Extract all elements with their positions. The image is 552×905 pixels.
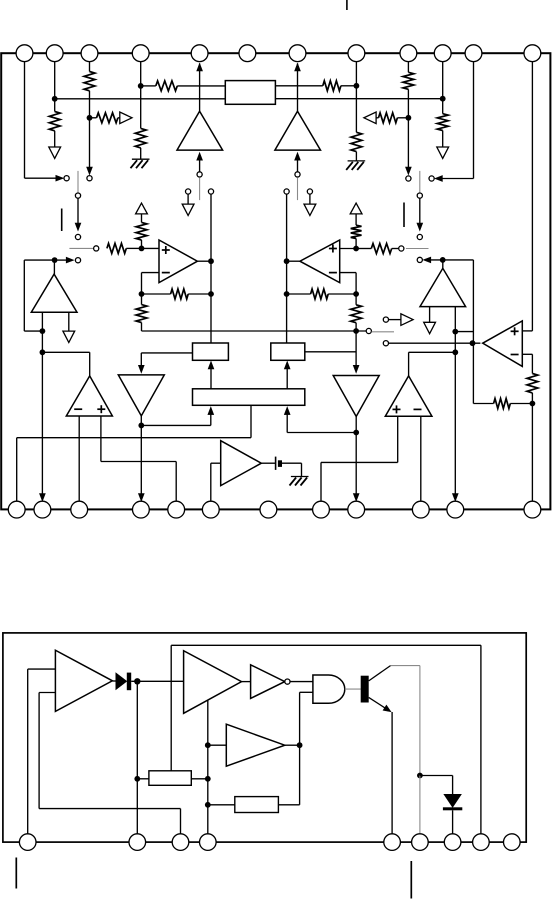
- wire B3 center down: [250, 405, 252, 437]
- wire N1 to AND gate G1 input a: [290, 681, 313, 683]
- stub to mute arrow R: [309, 194, 311, 204]
- wire U4 + leg across: [321, 461, 398, 463]
- wire down to U4 apex: [408, 352, 410, 376]
- arrowhead into pin B4: [138, 494, 144, 502]
- open arrow output left-pointing (monitor R): [364, 112, 376, 124]
- transistor Q1 emitter lead: [369, 697, 387, 709]
- junction node T: [40, 349, 46, 355]
- wire mixer to B2 arrow: [286, 365, 288, 389]
- resistor R18: [527, 374, 538, 393]
- wire U2 + input: [340, 248, 356, 250]
- transistor Q1 base bar: [361, 676, 369, 703]
- pin P4 (bottom block): [200, 834, 217, 851]
- wire collector down (gray): [419, 666, 421, 776]
- pin B1 (bottom row of top block): [8, 501, 25, 518]
- pin B11 (bottom row of top block): [447, 501, 464, 518]
- wire R1 to supply arrow: [54, 131, 56, 147]
- arrowhead into amp A2 input: [295, 153, 301, 161]
- pin T8 (top row): [348, 45, 365, 62]
- arrowhead into mixer B3 bottom left: [208, 407, 214, 415]
- block B2 (right attenuator): [271, 343, 305, 360]
- arrowhead into SW1 right contact: [87, 167, 93, 175]
- wire up to block B3 bottom right: [286, 411, 288, 433]
- U5 plus label: [511, 327, 519, 335]
- wire U1 - input horizontal: [142, 272, 160, 274]
- pin P9 (bottom block): [504, 834, 521, 851]
- wire U3 - leg to pin B3: [78, 416, 80, 501]
- transistor Q1 collector lead: [369, 666, 391, 681]
- resistor R15 (U2 feedback): [311, 289, 329, 299]
- wire down to CR2: [452, 776, 454, 795]
- inverter N1 (triangle): [251, 665, 285, 699]
- SW4 throw contact left: [284, 189, 289, 194]
- arrowhead into pin B9: [353, 494, 359, 502]
- resistor R3: [97, 113, 118, 123]
- power amp A2 (right, triangle up): [275, 111, 321, 150]
- junction node BG: [417, 773, 423, 779]
- U2 plus label: [329, 245, 337, 253]
- wire R6 to ground: [355, 152, 357, 161]
- wire R17 to rail2 node P: [355, 323, 357, 331]
- arrowhead into pin T5: [197, 63, 203, 71]
- wire U5 output to SW7 lower: [389, 342, 481, 344]
- SW3 throw contact right: [208, 189, 213, 194]
- wire U2 - input horizontal: [340, 272, 356, 274]
- wire node M to R16: [141, 294, 143, 305]
- wire pin T3 down: [89, 62, 91, 72]
- wire pin P1 up to D1 input: [27, 669, 29, 834]
- wire emitter to pin P5: [391, 712, 393, 834]
- resistor R10: [437, 114, 448, 131]
- page bottom tick mark 1: [15, 858, 17, 889]
- junction node K (U1 + input): [139, 246, 145, 252]
- pin T7 (top row): [289, 45, 306, 62]
- SW3 throw contact left: [186, 189, 191, 194]
- wire R13 to node L: [392, 248, 399, 250]
- resistor R8: [403, 72, 414, 89]
- capacitor C1 plate 1: [275, 457, 277, 470]
- wire R10 to supply arrow: [442, 131, 444, 148]
- pin T2 (top row): [46, 45, 63, 62]
- junction node Z: [353, 430, 359, 436]
- junction node P (rail2 / mixer feed): [353, 328, 359, 334]
- pin B6 (bottom row of top block): [202, 501, 219, 518]
- wire node W to U4 input: [409, 351, 456, 353]
- U4 plus label: [393, 405, 401, 413]
- pin T12 (top row): [524, 45, 541, 62]
- switch lever SW1 (gray): [77, 171, 79, 193]
- outer amp A3 (triangle up): [31, 274, 77, 312]
- diode CR2 anode (solid): [444, 794, 461, 807]
- wire A1 input from contact: [199, 156, 201, 172]
- block B3 (wide mixer block): [193, 389, 305, 406]
- wire pin T1 down: [24, 62, 26, 179]
- wire RB2 to corner: [278, 804, 299, 806]
- wire R16 to rail2: [141, 323, 143, 332]
- pin P1 (bottom block): [19, 834, 36, 851]
- SW4 throw contact right: [307, 189, 312, 194]
- junction node BC (D3 input): [205, 742, 211, 748]
- junction node R (A3 output): [52, 257, 58, 263]
- inverter T1 (triangle down): [118, 375, 164, 416]
- wire D1 to diode CR1: [112, 680, 116, 682]
- junction node H (feedback R12): [208, 291, 214, 297]
- wire tap on D2 output slope: [207, 701, 209, 746]
- wire R12 to node H: [188, 293, 211, 295]
- wire pin T10 down: [442, 62, 444, 114]
- op-amp U4 (triangle up): [385, 376, 432, 416]
- wire node Z to mixer arrow: [287, 432, 356, 434]
- pin P8 (bottom block): [473, 834, 490, 851]
- wire up to block B3 bottom: [210, 411, 212, 426]
- block B1 (left attenuator): [193, 343, 229, 360]
- junction node M: [139, 291, 145, 297]
- junction node BD: [297, 742, 303, 748]
- resistor R11: [107, 243, 126, 253]
- junction node E: [406, 115, 412, 121]
- junction node F (pin T10 / bus1): [440, 96, 446, 102]
- arrowhead into pin B2: [40, 494, 46, 502]
- junction node X: [530, 401, 536, 407]
- block X1 (center function block): [225, 81, 275, 105]
- power amp A1 (left, triangle up): [177, 111, 223, 150]
- arrowhead into pin B11: [452, 494, 458, 502]
- arrowhead into B1 bottom: [208, 361, 214, 369]
- arrowhead into SW5 lower contact: [66, 257, 74, 263]
- AND gate G1: [313, 675, 345, 703]
- wire RB1 to node BE: [191, 778, 208, 780]
- resistor R5: [156, 81, 178, 91]
- pin T6 (top row): [239, 45, 256, 62]
- pin B5 (bottom row of top block): [168, 501, 185, 518]
- wire node Y to pin B4: [140, 425, 142, 497]
- resistor R12a: [136, 222, 147, 240]
- wire pin T11 down: [473, 62, 475, 179]
- resistor RB1 (box style): [149, 771, 191, 786]
- wire R11 to node K: [126, 247, 141, 249]
- wire R8 to node E: [407, 89, 409, 118]
- pin T11 (top row): [465, 45, 482, 62]
- wire C1 to ground corner: [282, 462, 302, 464]
- SW7 throw upper: [383, 317, 388, 322]
- wire pin B6 to T3 input: [210, 463, 212, 501]
- supply up arrow symbol R: [350, 203, 362, 214]
- driver D3 (medium buffer): [226, 724, 284, 766]
- switch lever SW3 (gray): [199, 177, 201, 200]
- wire block B1 to T1: [141, 352, 192, 354]
- pin P2 (bottom block): [129, 834, 146, 851]
- wire A3 loop top: [24, 259, 54, 261]
- wire D3 output to node BD: [285, 744, 300, 746]
- resistor R19: [494, 399, 511, 409]
- ground symbol G3: [290, 477, 309, 486]
- wire SW7 upper to out arrow: [389, 319, 401, 321]
- wire A4 right leg: [454, 307, 456, 332]
- wire node BC down: [207, 745, 209, 779]
- switch lever SW5 (gray): [69, 247, 93, 249]
- wire feedback top corner down: [170, 645, 172, 771]
- SW7 common contact (rail2 end): [366, 328, 371, 333]
- wire supply to R12a: [141, 214, 143, 223]
- arrowhead into inverter T2: [353, 365, 359, 373]
- junction node Y: [138, 423, 144, 429]
- SW6 contact lower: [417, 257, 422, 262]
- outer amp A4 (triangle up): [420, 268, 466, 306]
- wire node BG to pin P6 (gray): [419, 776, 421, 835]
- arrowhead into SW2 contact: [435, 176, 443, 182]
- switch contact circle (A1 common): [197, 172, 202, 177]
- SW7 throw lower: [383, 341, 388, 346]
- wire pin T8 down: [355, 62, 357, 133]
- op-amp U5 (right edge, triangle left): [483, 321, 523, 367]
- wire outer amp A4 to SW6: [427, 259, 443, 261]
- SW2 contact left: [406, 176, 411, 181]
- wire R7 to node D: [341, 85, 357, 87]
- junction node A (pin T2 / bus1): [52, 96, 58, 102]
- wire down to pin B8: [320, 462, 322, 501]
- junction node D (pin T8 / R7): [354, 83, 360, 89]
- wire node M to R12: [142, 293, 171, 295]
- wire down to ground G3: [301, 463, 303, 476]
- pin T10 (top row): [434, 45, 451, 62]
- resistor R13: [371, 244, 391, 254]
- wire node BG to diode CR2: [420, 775, 453, 777]
- wire node Z to pin B9: [355, 433, 357, 498]
- U3 plus label: [97, 405, 105, 413]
- wire mixer to B1 arrow: [210, 365, 212, 389]
- selector tick mark right: [403, 203, 405, 228]
- SW1 contact left: [64, 176, 69, 181]
- SW1 contact right: [87, 176, 92, 181]
- junction node I (U2 output): [284, 258, 290, 264]
- U2 minus label: [329, 272, 337, 274]
- capacitor C1 plate 2 (solid): [278, 460, 282, 467]
- junction node N: [353, 291, 359, 297]
- wire U1 output to node G: [197, 260, 211, 262]
- pin B8 (bottom row of top block): [313, 501, 330, 518]
- arrowhead into B2 bottom: [284, 361, 290, 369]
- junction node Q (U5 output / feedback): [470, 340, 476, 346]
- wire pin T5 to amp A1 output: [199, 63, 201, 111]
- wire bus1 right segment (block X1 to node F): [275, 98, 442, 100]
- wire AND G1 output to Q1 base (gray): [345, 688, 361, 690]
- wire node P down: [355, 331, 357, 369]
- wire node BB to RB1: [137, 778, 149, 780]
- wire A4 apex to node U: [442, 260, 444, 268]
- SW5 common contact: [94, 246, 99, 251]
- SW6 contact upper: [417, 234, 422, 239]
- wire A2 input from contact: [297, 156, 299, 172]
- diode CR1 cathode bar: [127, 673, 131, 691]
- pin T4 (top row): [132, 45, 149, 62]
- junction node BE: [205, 776, 211, 782]
- arrowhead into amp A1 input: [197, 153, 203, 161]
- wire into D1 input 1: [28, 668, 56, 670]
- SW5 contact lower: [75, 258, 80, 263]
- wire pin T12 to op-amp U5 + input: [522, 330, 532, 332]
- wire node V down: [454, 332, 456, 353]
- wire SW1 common down: [77, 198, 79, 223]
- pin B9 (bottom row of top block): [348, 501, 365, 518]
- wire R15 to node N: [328, 293, 356, 295]
- wire bus1 left segment (node A to block X1): [55, 98, 226, 100]
- wire A4 loop right vertical: [472, 260, 474, 343]
- pin B7 (bottom row of top block): [260, 501, 277, 518]
- wire R14a to node L: [355, 239, 357, 249]
- wire U4 - leg to pin B10: [420, 416, 422, 501]
- inverter N1 bubble: [285, 679, 290, 684]
- junction node U (A4 output): [440, 257, 446, 263]
- wire node BB to pin P2: [136, 779, 138, 834]
- arrowhead into SW1 contact: [56, 175, 64, 181]
- resistor R7: [323, 81, 341, 91]
- pin P6 (bottom block): [412, 834, 429, 851]
- wire D1 input 2 vertical: [38, 693, 40, 809]
- SW6 common contact: [399, 246, 404, 251]
- ground symbol G2: [346, 161, 365, 170]
- diode CR2 cathode bar: [443, 807, 462, 810]
- pin T5 (top row): [191, 45, 208, 62]
- open arrow output left (monitor L): [120, 112, 132, 124]
- wire column x286.6 (SW4 to attenuator block): [286, 194, 288, 343]
- wire U1 - down to node M: [141, 273, 143, 294]
- wire R12a to node K: [141, 240, 143, 248]
- wire node L stub: [356, 248, 371, 250]
- wire loop down to pin P8: [480, 645, 482, 834]
- resistor R4: [135, 128, 146, 148]
- pin B3 (bottom row of top block): [71, 501, 88, 518]
- switch lever SW7 (gray): [372, 331, 394, 333]
- wire A3 apex to node R: [53, 260, 55, 274]
- wire node BD up: [299, 692, 301, 745]
- wire node S down: [41, 331, 43, 352]
- U1 plus label: [162, 246, 170, 254]
- driver D2 (large buffer): [184, 651, 242, 714]
- switch lever SW4 (gray): [297, 177, 299, 200]
- wire pin T7 to amp A2 output: [297, 63, 299, 111]
- wire pin T12 down: [531, 62, 533, 331]
- wire R4 to ground: [140, 148, 142, 159]
- wire node Q down (feedback): [472, 343, 474, 403]
- junction node S: [40, 328, 46, 334]
- junction node C (pin T4 / R5): [138, 83, 144, 89]
- wire node BC to D3: [208, 744, 227, 746]
- arrowhead into pin T7: [295, 63, 301, 71]
- junction node J (feedback R15): [284, 291, 290, 297]
- pin P3 (bottom block): [172, 834, 189, 851]
- SW2 contact right: [429, 176, 434, 181]
- resistor R14a: [351, 225, 362, 238]
- wire node W to pin B11: [454, 352, 456, 497]
- selector tick mark left: [61, 209, 63, 232]
- arrowhead into T1: [138, 365, 144, 373]
- wire R3 to out arrow: [118, 117, 120, 119]
- resistor R16: [136, 305, 147, 323]
- wire rail2 (volume bus): [142, 330, 367, 332]
- wire outer amp A3 to SW5: [57, 259, 70, 261]
- wire node C to R5: [141, 85, 156, 87]
- supply up arrow symbol L: [136, 203, 148, 214]
- wire SW2 common down: [419, 198, 421, 223]
- SW1 common contact: [75, 193, 80, 198]
- wire R19 to node X: [510, 403, 532, 405]
- junction node BF: [205, 802, 211, 808]
- wire T2 apex to node Z: [355, 417, 357, 433]
- SW2 common contact: [417, 193, 422, 198]
- wire node BE down: [207, 779, 209, 805]
- wire T3 output to C1: [261, 462, 275, 464]
- pin P7 (bottom block): [444, 834, 461, 851]
- junction node W: [452, 349, 458, 355]
- mute down arrow symbol L1: [182, 204, 194, 215]
- wire A3 right leg: [68, 312, 70, 331]
- wire node N to R17: [355, 294, 357, 305]
- op-amp U3 (triangle up): [66, 376, 112, 416]
- wire node T to U3 input: [42, 351, 89, 353]
- wire node J to R15: [287, 293, 311, 295]
- wire pin T2 down: [54, 62, 56, 112]
- wire node T to pin B2: [41, 352, 43, 497]
- wire U2 output to node I: [287, 260, 300, 262]
- wire R5 to block X1: [177, 85, 225, 87]
- supply down arrow symbol 1: [49, 147, 61, 158]
- wire down to pin B5: [175, 462, 177, 502]
- resistor R17: [351, 305, 362, 323]
- wire U3 + leg down: [100, 416, 102, 462]
- wire U3 + leg across: [101, 461, 176, 463]
- resistor R9: [379, 113, 398, 123]
- wire pin T1 to switch SW1: [25, 177, 61, 179]
- pin P5 (bottom block): [384, 834, 401, 851]
- wire node BA down: [136, 681, 138, 779]
- switch lever SW2 (gray): [419, 171, 421, 193]
- arrowhead down to SW5 contact: [75, 223, 81, 231]
- wire T3 input stub: [211, 462, 221, 464]
- open arrow output right: [401, 314, 413, 326]
- mute down arrow symbol L2: [63, 331, 75, 342]
- wire A4 left leg: [429, 307, 431, 323]
- wire bus3 to left: [17, 437, 251, 439]
- wire A4 loop top: [443, 259, 474, 261]
- resistor R1: [49, 112, 60, 131]
- wire feedback loop top: [171, 644, 481, 646]
- wire U5 - input: [522, 353, 532, 355]
- wire pin T9 down: [407, 62, 409, 73]
- junction node BA (CR1 cathode): [134, 678, 140, 684]
- wire to AND gate G1 input b: [300, 691, 313, 693]
- wire feedback to R19: [473, 403, 493, 405]
- supply down arrow symbol 2: [437, 147, 449, 158]
- wire block B2 to node P column: [305, 351, 356, 353]
- junction node V: [452, 329, 458, 335]
- arrowhead into SW2 left contact: [406, 167, 412, 175]
- wire node X to pin B12: [531, 404, 533, 502]
- U4 minus label: [414, 408, 422, 410]
- pin B10 (bottom row of top block): [412, 501, 429, 518]
- wire column x211 (SW3 to attenuator block): [210, 194, 212, 343]
- switch lever SW6 (gray): [406, 248, 429, 250]
- IC package outline (top block diagram): [1, 53, 550, 509]
- pin B2 (bottom row of top block): [34, 501, 51, 518]
- arrowhead into SW6 lower contact: [423, 257, 431, 263]
- pin T1 (top row): [16, 45, 33, 62]
- wire pin T11 to switch SW2: [438, 178, 474, 180]
- wire node K to U1 +: [142, 247, 160, 249]
- wire down into T1: [140, 353, 142, 369]
- wire A3 loop bottom: [24, 330, 42, 332]
- junction node G (U1 output): [208, 258, 214, 264]
- junction node B: [87, 115, 93, 121]
